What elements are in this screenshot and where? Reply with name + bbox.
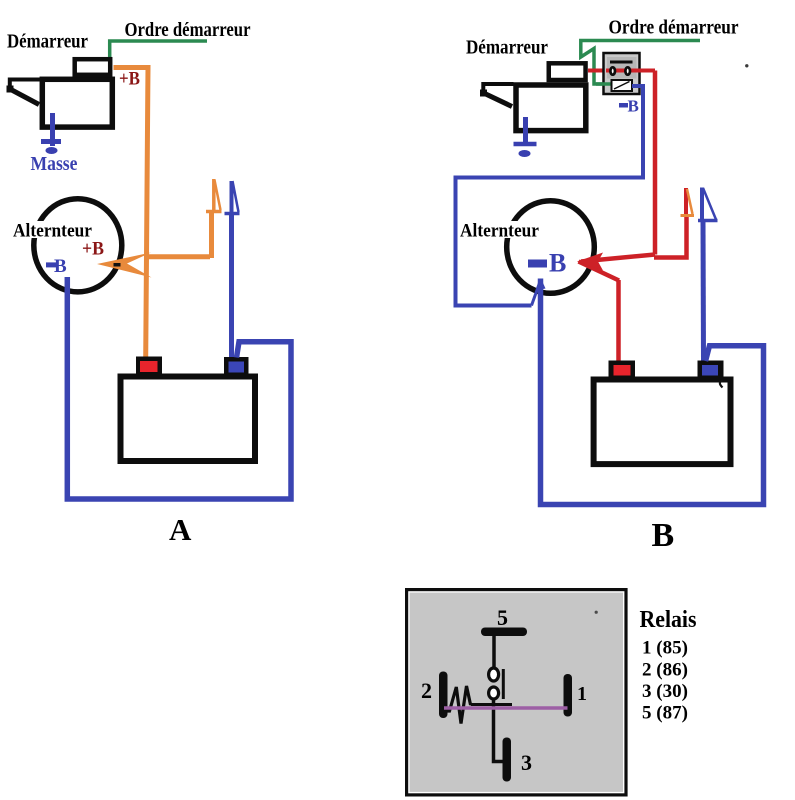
battery A + terminal (red) [136,357,162,377]
svg-text:+B: +B [119,69,140,90]
relay coil box with diagonal [612,80,633,91]
wire orange: starter A +B down to battery + [114,68,149,359]
wire pin5 to contact [492,636,496,668]
wire spring to contact [471,703,512,706]
starter motor B: solenoid top box [549,63,586,80]
battery B - terminal (blue) [698,361,724,379]
pin 3 terminal bar [503,738,512,782]
starter motor A: solenoid top box [75,59,111,75]
relay contact pin left [610,67,615,74]
svg-text:1: 1 [577,683,587,705]
relay pinout gray box [407,590,626,795]
wire red: relay to alternator B and battery + [579,71,656,362]
small hook mark inside battery B [720,381,723,388]
svg-text:B: B [54,256,67,277]
contact bar right [502,669,505,699]
battery B box [594,380,731,465]
wire blue: up-arrow down to battery B minus [702,188,704,362]
starter motor A: nose cone [7,80,41,105]
arrow head blue (top, B) [698,188,718,221]
wire green: ordre démarreur to relay coil (B) [581,41,700,85]
svg-text:Masse: Masse [31,154,78,175]
svg-text:2: 2 [421,678,432,703]
label Alternteur (B) [458,221,542,242]
pin 2 terminal bar [439,672,448,719]
starter motor A: main body [42,79,112,127]
svg-text:Relais: Relais [640,606,697,633]
relay contact pin right [625,67,630,74]
svg-text:+B: +B [82,239,104,260]
battery A box [121,377,256,462]
wire blue: relay =B to alternator case (B) [456,86,644,306]
svg-text:B: B [628,97,639,116]
svg-text:5: 5 [497,605,508,630]
wire red: branch to up-arrow (B) [654,188,687,258]
speck mark inside pinout box [595,611,598,614]
battery A - terminal (blue) [224,357,249,376]
wire orange: alternator A output to up-arrow [147,179,214,258]
svg-text:B: B [652,517,675,554]
svg-text:3: 3 [521,750,532,775]
starter motor B: nose cone [480,84,514,107]
ground (Masse) symbol A [41,113,61,154]
arrow head orange (top, A) [206,180,222,212]
pin 1 terminal bar [564,674,573,717]
svg-text:Alternteur: Alternteur [13,221,93,242]
purple wire pin2 to pin1 [444,706,568,710]
svg-text:1 (85): 1 (85) [642,638,688,659]
arrow head orange-red (top, B) [681,189,695,216]
label =B (relay B) [619,97,639,116]
contact circle lower [489,687,499,699]
wire green: stub into relay coil box [596,82,611,86]
svg-text:Alternteur: Alternteur [460,221,540,242]
arrowhead red at alternator B [577,253,603,271]
alternator A circle [34,199,122,292]
wire contact to pin 3 [494,699,503,762]
node dot at +B terminal A [114,263,121,267]
relay U1 (circuit B) [604,53,640,94]
arrow head blue (top, A) [225,181,240,214]
starter motor B: main body [516,85,586,131]
battery B + terminal (red) [609,361,636,379]
arrowhead blue at alternator case B [536,279,546,291]
svg-text:2 (86): 2 (86) [642,660,688,681]
arrowhead orange at alternator A +B [97,253,152,278]
label Alternteur (A) [11,221,94,242]
relay coil spring [446,686,471,724]
alternator B circle [507,201,595,294]
label =B (alternator A) [46,256,67,277]
svg-text:Démarreur: Démarreur [466,37,548,59]
pin 5 terminal bar [481,628,527,637]
svg-text:5 (87): 5 (87) [642,703,688,724]
wire green: ordre démarreur to starter A [110,41,207,58]
svg-text:Ordre démarreur: Ordre démarreur [125,19,251,41]
wire blue: up-arrow down to battery A minus [229,181,234,357]
wire red: starter B +B to relay contact [588,69,606,73]
ground symbol starter B [514,117,537,157]
svg-text:Ordre démarreur: Ordre démarreur [609,17,739,39]
label =B (alternator B) [528,249,566,278]
contact circle upper [489,668,499,681]
speck mark near relay wire (B) [745,64,748,67]
svg-text:A: A [169,512,192,547]
svg-text:Démarreur: Démarreur [7,31,88,53]
wire red through relay contacts [606,69,655,73]
svg-text:B: B [549,249,566,278]
svg-text:3 (30): 3 (30) [642,681,688,702]
wire blue: battery A minus loop to alternator case [67,277,291,499]
wire blue: battery B minus loop to alternator case [541,279,764,505]
